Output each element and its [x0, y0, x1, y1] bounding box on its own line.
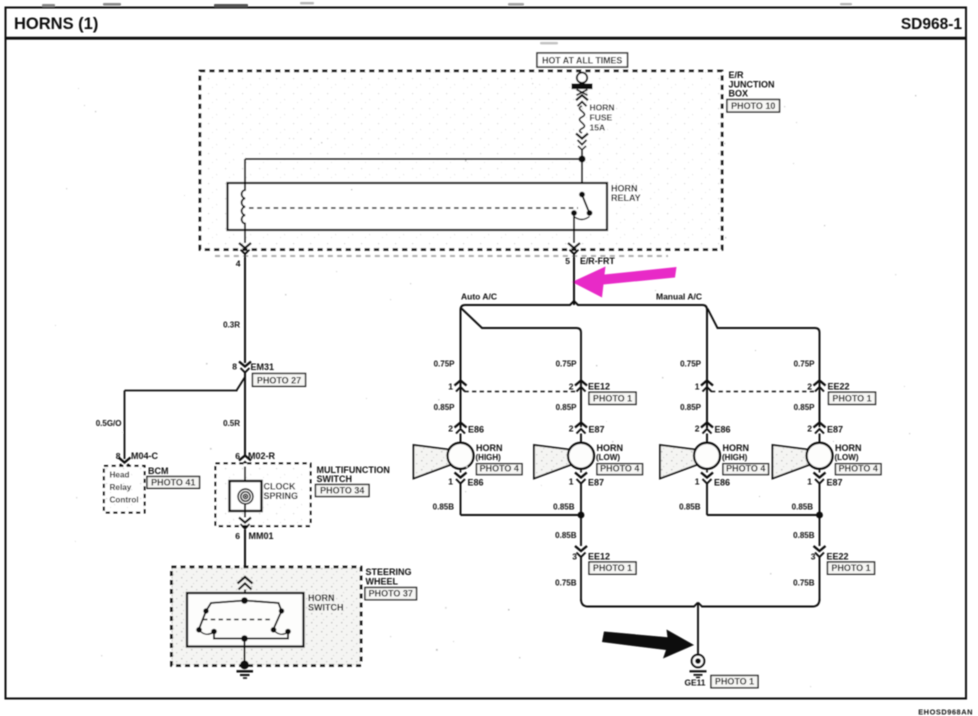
wire branch diagonal to BCM: [237, 377, 246, 391]
svg-text:SWITCH: SWITCH: [308, 602, 344, 612]
svg-text:EE22: EE22: [827, 552, 849, 562]
svg-text:(HIGH): (HIGH): [722, 453, 748, 462]
ground bus wires: [581, 599, 820, 647]
svg-text:2: 2: [569, 382, 574, 392]
svg-text:PHOTO 1: PHOTO 1: [593, 563, 632, 573]
label box PHOTO 41: [147, 477, 200, 489]
svg-text:15A: 15A: [590, 123, 606, 133]
label box PHOTO 10: [727, 100, 780, 113]
svg-text:0.85B: 0.85B: [555, 531, 577, 540]
wire into horn: [706, 434, 708, 444]
svg-text:1: 1: [569, 477, 574, 487]
svg-text:EE22: EE22: [828, 382, 850, 392]
svg-text:0.3R: 0.3R: [223, 321, 240, 330]
wire into horn: [460, 434, 462, 444]
ghost dashed line below junction box: [215, 255, 668, 257]
svg-text:0.85P: 0.85P: [794, 403, 816, 412]
connector E87 pin 1: [814, 473, 826, 484]
svg-text:8: 8: [232, 362, 237, 372]
svg-text:E87: E87: [588, 477, 604, 487]
wire split to Auto/Manual A/C: [461, 301, 708, 428]
wire relay pin4 down (0.3R): [244, 255, 246, 364]
svg-text:HORN: HORN: [476, 443, 503, 453]
wire 0.85B below horn: [460, 484, 462, 515]
label box PHOTO 4: [597, 464, 643, 475]
connector EE22 pin 3: [814, 546, 826, 557]
scan artifacts top edge: [42, 2, 852, 44]
svg-text:PHOTO 1: PHOTO 1: [831, 563, 870, 573]
label box PHOTO 27: [253, 374, 306, 387]
wire into horn switch: [244, 590, 246, 594]
svg-text:PHOTO 41: PHOTO 41: [151, 477, 195, 487]
wire 0.85B to connector EE12: [580, 515, 582, 546]
connector EE12 pin 3: [575, 546, 587, 557]
svg-text:0.75B: 0.75B: [555, 579, 577, 588]
junction node left pair: [578, 512, 585, 519]
wire 0.85B to connector EE22: [819, 515, 821, 546]
svg-text:E87: E87: [827, 425, 843, 435]
fusible link X mark: [577, 90, 588, 96]
horn cone (speaker): [414, 445, 453, 479]
wire 0.85P segment: [706, 392, 708, 423]
in-line connector pin 2: [814, 381, 826, 392]
steering wheel name: [366, 567, 412, 586]
svg-text:0.5G/O: 0.5G/O: [96, 419, 122, 428]
svg-text:EE12: EE12: [588, 552, 610, 562]
svg-text:0.5R: 0.5R: [223, 419, 240, 428]
svg-text:E87: E87: [827, 477, 843, 487]
fuse HORN FUSE 15A: [580, 106, 585, 133]
svg-text:1: 1: [695, 477, 700, 487]
E/R junction box (dashed): [200, 71, 722, 250]
svg-text:PHOTO 27: PHOTO 27: [257, 375, 301, 385]
wire 0.85B below horn: [819, 484, 821, 515]
svg-text:2: 2: [807, 382, 812, 392]
svg-text:SPRING: SPRING: [264, 491, 299, 501]
svg-text:3: 3: [572, 552, 577, 562]
magenta highlight arrow: [572, 267, 677, 298]
clock spring name: [264, 481, 299, 501]
svg-text:0.75P: 0.75P: [556, 360, 578, 369]
black highlight arrow: [602, 630, 694, 659]
wire 0.85P segment: [580, 392, 582, 423]
horn name: [835, 443, 862, 462]
in-line connector pin 2: [575, 381, 587, 392]
wire fuse to relay contact: [581, 150, 583, 193]
scan noise specks: [55, 83, 916, 687]
svg-text:(LOW): (LOW): [835, 453, 859, 462]
svg-text:0.85B: 0.85B: [792, 503, 814, 512]
wire down to BCM (0.5G/O): [124, 391, 126, 460]
label box PHOTO 1: [589, 562, 636, 574]
ground GE11: [690, 647, 707, 677]
connector E87 pin 2: [814, 423, 826, 434]
junction node fuse/relay feed: [579, 156, 586, 163]
svg-text:HOT AT ALL TIMES: HOT AT ALL TIMES: [542, 56, 622, 66]
connector E86 pin 1: [455, 473, 467, 484]
horn cone (speaker): [534, 445, 573, 479]
connector M04-C: [119, 458, 131, 469]
svg-text:3: 3: [811, 552, 816, 562]
svg-text:2: 2: [448, 424, 453, 434]
svg-text:PHOTO 1: PHOTO 1: [715, 677, 754, 687]
wire clock spring to MM01: [244, 504, 246, 518]
horn cone (speaker): [773, 445, 812, 479]
label box PHOTO 37: [365, 588, 417, 600]
wire 0.75B to ground bus: [580, 558, 582, 602]
svg-text:1: 1: [448, 382, 453, 392]
horn name: [722, 443, 749, 462]
multifunction switch name: [317, 465, 390, 484]
svg-text:1: 1: [807, 477, 812, 487]
bus bar: [572, 84, 593, 90]
svg-text:E86: E86: [468, 477, 484, 487]
svg-text:4: 4: [236, 259, 241, 269]
svg-text:HORNS (1): HORNS (1): [14, 15, 98, 33]
label box PHOTO 4: [723, 464, 769, 475]
clock spring U2: [230, 481, 262, 511]
horn circle: [448, 443, 474, 469]
svg-text:0.85B: 0.85B: [553, 503, 575, 512]
horn switch mechanical link (dashed): [203, 619, 272, 621]
svg-text:PHOTO 1: PHOTO 1: [593, 393, 632, 403]
connector E86 pin 1: [701, 473, 713, 484]
svg-text:Control: Control: [110, 496, 139, 505]
svg-text:WHEEL: WHEEL: [366, 576, 399, 586]
label box PHOTO 4: [477, 464, 523, 475]
connector E86 pin 2: [701, 423, 713, 434]
svg-text:Head: Head: [110, 471, 130, 480]
svg-text:SWITCH: SWITCH: [317, 474, 353, 484]
horn circle: [807, 443, 833, 469]
horn cone (speaker): [660, 445, 699, 479]
connector E86 pin 2: [455, 423, 467, 434]
connector E87 pin 1: [575, 473, 587, 484]
svg-text:PHOTO 4: PHOTO 4: [600, 464, 639, 474]
wire joining horn pair (right): [707, 514, 820, 516]
svg-text:0.75P: 0.75P: [680, 360, 702, 369]
svg-text:GE11: GE11: [685, 678, 706, 688]
relay coil L1: [242, 159, 245, 243]
connector chevrons above fuse: [576, 95, 588, 106]
svg-text:CLOCK: CLOCK: [264, 481, 296, 491]
svg-text:E86: E86: [714, 477, 730, 487]
svg-text:HORN: HORN: [835, 443, 862, 453]
svg-text:0.85P: 0.85P: [434, 403, 456, 412]
svg-text:PHOTO 4: PHOTO 4: [726, 464, 765, 474]
E/R junction box name: [729, 70, 775, 99]
svg-text:E86: E86: [715, 425, 731, 435]
relay name HORN RELAY: [611, 183, 641, 203]
svg-text:EM31: EM31: [251, 362, 275, 372]
connector E87 pin 2: [575, 423, 587, 434]
svg-text:PHOTO 10: PHOTO 10: [731, 101, 775, 111]
wire horn switch to ground: [244, 642, 246, 664]
relay pin 4 connector: [239, 243, 251, 254]
dashed connector link EE22: [711, 391, 815, 393]
connector MM01: [239, 518, 251, 529]
sub-branch to horn 4: [708, 309, 820, 428]
wire relay pin5 down: [573, 255, 575, 306]
svg-text:Manual A/C: Manual A/C: [656, 291, 702, 301]
relay contact: [571, 192, 592, 243]
label box PHOTO 1: [589, 392, 636, 404]
connector EM31: [239, 362, 251, 373]
svg-text:BCM: BCM: [148, 466, 169, 476]
wire MM01 to steering wheel: [244, 530, 246, 578]
steering wheel box (dashed): [172, 567, 362, 666]
svg-text:PHOTO 4: PHOTO 4: [480, 464, 519, 474]
svg-text:8: 8: [116, 451, 121, 461]
relay pin 5 connector: [568, 243, 580, 254]
svg-text:0.85B: 0.85B: [679, 503, 701, 512]
svg-text:0.75B: 0.75B: [793, 579, 815, 588]
svg-text:SD968-1: SD968-1: [901, 16, 963, 33]
wire EM31 to M02-R (0.5R): [244, 373, 246, 456]
HOT AT ALL TIMES label: [537, 53, 628, 67]
wire 0.75B to ground bus: [819, 558, 821, 602]
svg-text:6: 6: [235, 451, 240, 461]
wire 0.85P segment: [819, 392, 821, 423]
wire feed to relay coil: [245, 158, 582, 160]
ground (steering wheel): [237, 660, 254, 678]
multifunction switch box (dashed): [216, 464, 311, 527]
svg-text:M04-C: M04-C: [131, 451, 159, 461]
svg-text:HORN: HORN: [723, 443, 750, 453]
wire 0.85B below horn: [706, 484, 708, 515]
connector M02-R: [239, 456, 251, 467]
in-line connector pin 1: [701, 381, 713, 392]
svg-text:1: 1: [695, 382, 700, 392]
svg-text:PHOTO 37: PHOTO 37: [369, 589, 413, 599]
wire into horn: [819, 434, 821, 444]
connector chevrons below fuse: [576, 134, 588, 150]
svg-text:0.75P: 0.75P: [794, 360, 816, 369]
svg-text:(LOW): (LOW): [596, 453, 620, 462]
svg-text:PHOTO 4: PHOTO 4: [839, 464, 878, 474]
svg-text:PHOTO 1: PHOTO 1: [832, 393, 871, 403]
relay mechanical link (dashed): [249, 207, 578, 209]
svg-text:(HIGH): (HIGH): [476, 453, 502, 462]
svg-text:0.85P: 0.85P: [556, 403, 578, 412]
sub-branch to horn 2: [462, 309, 582, 428]
svg-text:HORN: HORN: [611, 183, 638, 193]
svg-text:EE12: EE12: [588, 382, 610, 392]
title separator line: [6, 37, 967, 40]
svg-text:Relay: Relay: [110, 483, 132, 492]
horn relay box: [228, 183, 608, 230]
wire 0.85B below horn: [580, 484, 582, 515]
svg-text:0.85P: 0.85P: [680, 403, 702, 412]
svg-text:EHOSD968AN: EHOSD968AN: [918, 708, 973, 716]
horn name: [476, 443, 503, 462]
wire horizontal to BCM branch: [125, 390, 238, 392]
label box PHOTO 4: [836, 464, 882, 475]
dashed connector link EE12: [465, 391, 577, 393]
svg-text:Auto A/C: Auto A/C: [461, 291, 497, 301]
junction node right pair: [816, 512, 823, 519]
wire joining horn pair (left): [461, 514, 582, 516]
horn switch contacts: [199, 601, 288, 639]
double chevron into steering wheel: [238, 577, 253, 590]
svg-text:FUSE: FUSE: [590, 113, 613, 123]
label box PHOTO 1: [828, 562, 875, 574]
power feed terminal circle: [577, 73, 587, 83]
label box PHOTO 1: [829, 392, 876, 404]
svg-text:2: 2: [695, 424, 700, 434]
svg-text:0.85B: 0.85B: [793, 531, 815, 540]
horn switch name: [308, 593, 344, 612]
horn switch SW1 box: [187, 593, 304, 647]
svg-text:M02-R: M02-R: [248, 451, 276, 461]
label box PHOTO 34: [316, 485, 370, 497]
svg-text:E/R-FRT: E/R-FRT: [580, 256, 615, 266]
horn circle: [568, 443, 594, 469]
svg-text:0.75P: 0.75P: [434, 360, 456, 369]
svg-text:RELAY: RELAY: [611, 193, 641, 203]
svg-text:PHOTO 34: PHOTO 34: [320, 486, 364, 496]
label box PHOTO 1: [711, 676, 758, 688]
svg-text:HORN: HORN: [590, 103, 615, 113]
BCM pin function text: [110, 471, 139, 505]
svg-text:2: 2: [807, 424, 812, 434]
svg-text:5: 5: [565, 256, 570, 266]
horn circle: [694, 443, 720, 469]
svg-text:1: 1: [448, 477, 453, 487]
svg-text:MM01: MM01: [249, 531, 274, 541]
wire into horn: [580, 434, 582, 444]
horn name: [596, 443, 623, 462]
wire into clock spring: [244, 467, 246, 490]
svg-text:E86: E86: [468, 425, 484, 435]
svg-text:HORN: HORN: [597, 443, 624, 453]
svg-text:2: 2: [569, 424, 574, 434]
svg-text:0.85B: 0.85B: [433, 503, 455, 512]
svg-text:6: 6: [235, 531, 240, 541]
in-line connector pin 1: [455, 381, 467, 392]
svg-text:E87: E87: [589, 425, 605, 435]
wire 0.85P segment: [460, 392, 462, 423]
svg-text:BOX: BOX: [729, 89, 749, 99]
BCM box (dashed): [104, 466, 145, 513]
svg-text:E/R: E/R: [729, 70, 745, 80]
